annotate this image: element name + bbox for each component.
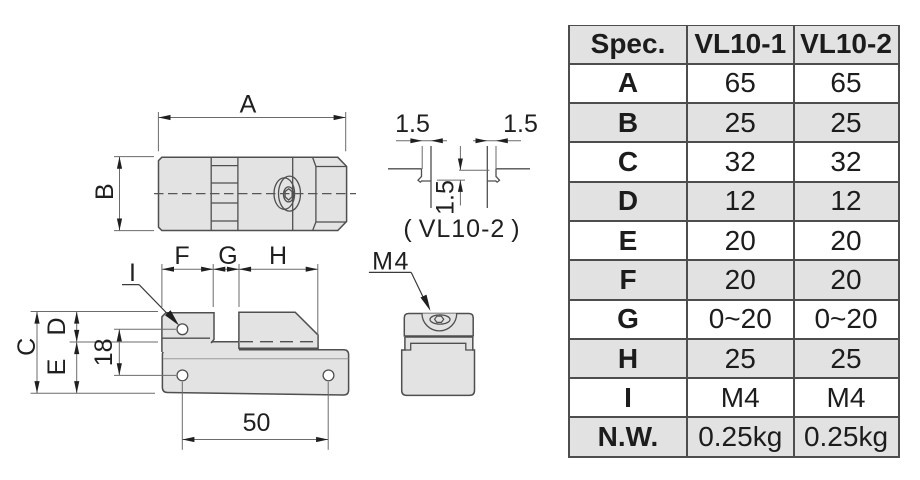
svg-text:G: G [218, 242, 237, 270]
svg-text:H: H [269, 242, 287, 270]
dimension D [70, 312, 158, 343]
svg-text:1.5: 1.5 [503, 110, 538, 138]
svg-text:D: D [43, 317, 71, 335]
dimension A [158, 112, 345, 151]
svg-text:F: F [174, 242, 189, 270]
detail view dimension 1.5 depth [437, 146, 489, 206]
front view movable jaw [239, 312, 318, 348]
detail view groove profile left [388, 146, 431, 208]
dimension F [162, 264, 213, 307]
svg-text:I: I [129, 259, 136, 287]
spec table [568, 25, 900, 458]
top view body [159, 157, 347, 230]
front view mounting hole left [177, 370, 188, 381]
side view screw boss [422, 314, 457, 331]
top view jaw strip [211, 157, 238, 230]
side view base body [402, 337, 475, 395]
svg-text:50: 50 [243, 409, 271, 437]
top view fixed jaw block [313, 157, 347, 230]
side view upper block [404, 314, 473, 337]
front view base guide line [163, 358, 348, 360]
top view screw knob [274, 176, 301, 211]
svg-text:C: C [13, 338, 41, 356]
front view mounting hole right [323, 370, 334, 381]
dimension C [31, 312, 158, 394]
svg-text:18: 18 [90, 338, 118, 366]
svg-text:M4: M4 [372, 248, 410, 276]
svg-text:B: B [91, 183, 119, 200]
svg-text:1.5: 1.5 [395, 110, 430, 138]
dimension H [239, 264, 318, 346]
dimension E [76, 342, 78, 393]
svg-text:A: A [240, 91, 257, 119]
front view screw hole I [177, 324, 188, 335]
dimension 50 [182, 382, 328, 450]
dimension B [114, 157, 154, 231]
svg-text:E: E [43, 359, 71, 376]
front view fixed jaw block [162, 313, 239, 352]
dimension G [213, 264, 239, 307]
side view guide channel [405, 343, 473, 350]
top view centerline [154, 193, 356, 195]
svg-text:( VL10-2 ): ( VL10-2 ) [403, 215, 520, 243]
detail view groove profile right [487, 146, 530, 208]
detail view dimension 1.5 left [396, 141, 521, 169]
front view base [162, 350, 348, 395]
dimension 18 [114, 329, 176, 375]
svg-text:1.5: 1.5 [432, 180, 460, 215]
top view movable jaw edge [292, 157, 294, 230]
